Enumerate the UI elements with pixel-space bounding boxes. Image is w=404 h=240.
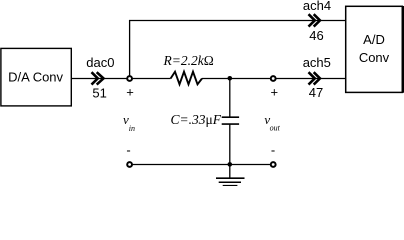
svg-text:+: +: [271, 85, 279, 100]
svg-text:A/D: A/D: [363, 32, 385, 47]
svg-text:Conv: Conv: [359, 50, 390, 65]
svg-text:in: in: [129, 124, 135, 133]
svg-text:ach5: ach5: [303, 55, 331, 70]
svg-text:47: 47: [309, 85, 323, 100]
svg-text:ach4: ach4: [303, 0, 331, 13]
svg-text:51: 51: [92, 85, 106, 100]
svg-text:dac0: dac0: [86, 55, 114, 70]
svg-text:-: -: [126, 142, 130, 157]
svg-text:D/A Conv: D/A Conv: [8, 69, 63, 84]
svg-text:-: -: [271, 142, 275, 157]
svg-text:+: +: [126, 85, 134, 100]
svg-text:C=.33μF: C=.33μF: [171, 112, 222, 127]
svg-text:R=2.2kΩ: R=2.2kΩ: [163, 53, 214, 68]
svg-text:out: out: [270, 124, 281, 133]
svg-text:46: 46: [309, 28, 323, 43]
